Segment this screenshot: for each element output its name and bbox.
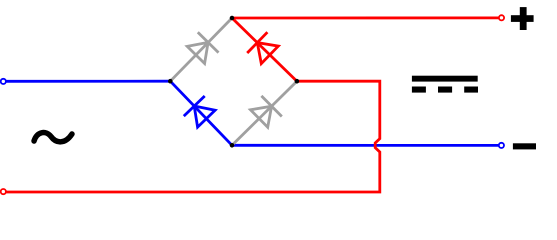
DC symbol dashed bar <box>412 87 478 93</box>
node junction dot: bridge top <box>230 16 235 21</box>
wire AC blue input: left terminal to bridge left node <box>6 80 170 83</box>
terminal DC output plus (red) <box>499 15 504 20</box>
terminal DC output minus (blue) <box>499 143 504 148</box>
plus sign label <box>511 7 534 30</box>
terminal AC input bottom (red) <box>1 189 6 194</box>
wire AC red input: bottom terminal, right riser with hop over blue wire, to bridge right node <box>6 81 380 192</box>
terminal AC input top (blue) <box>1 79 6 84</box>
wire bridge edge bottom-right (gray, non conducting) <box>232 81 297 145</box>
DC symbol solid bar <box>412 76 478 82</box>
diode D1 top-left (gray, off) <box>187 32 218 63</box>
diode D2 top-right (red, on) <box>247 32 278 63</box>
diode D3 bottom-left (blue, on) <box>184 96 215 127</box>
node junction dot: bridge right <box>295 79 300 84</box>
wire top red output: bridge top node to plus terminal <box>232 16 499 19</box>
wire bridge edge left-bottom (blue, conducting) <box>170 81 232 145</box>
wire bridge edge top-right (red, conducting) <box>232 18 297 81</box>
node junction dot: bridge bottom <box>230 143 235 148</box>
node junction dot: bridge left <box>168 79 173 84</box>
minus sign label <box>513 143 536 149</box>
diode D4 bottom-right (gray, off) <box>251 96 282 127</box>
wire bridge edge left-top (gray, non conducting) <box>170 18 232 81</box>
wire bottom blue output: bridge bottom node to minus terminal <box>232 144 499 147</box>
ac source tilde symbol <box>34 133 72 142</box>
